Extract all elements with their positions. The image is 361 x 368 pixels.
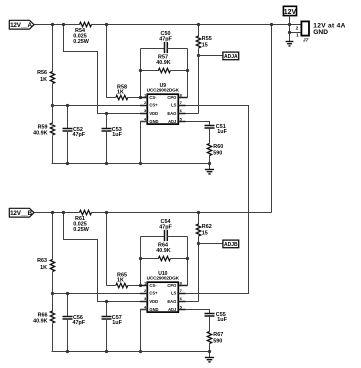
svg-text:J7: J7 xyxy=(303,38,309,44)
svg-text:R62: R62 xyxy=(202,224,212,230)
svg-text:1K: 1K xyxy=(117,89,124,95)
loop bottom left xyxy=(141,70,159,72)
wire C57 to rail xyxy=(106,319,108,352)
wire to CS- series resistor xyxy=(107,97,116,99)
wire cap to resistor xyxy=(209,317,211,332)
junction rail/C xyxy=(66,162,69,165)
junction rail/GND pin xyxy=(139,350,142,353)
svg-text:R55: R55 xyxy=(202,36,212,42)
capacitor C55 1uF (ADJ) xyxy=(205,312,228,323)
junction ADJ tap xyxy=(197,242,200,245)
svg-text:CS-: CS- xyxy=(149,95,157,100)
svg-text:47pF: 47pF xyxy=(159,36,172,42)
wire resistor to ground xyxy=(209,344,211,358)
net label ADJB xyxy=(223,240,239,248)
loop bottom right xyxy=(171,70,188,72)
wire to ADJA label xyxy=(199,55,223,57)
resistor R60 590 xyxy=(207,144,223,157)
wire R66 to local rail xyxy=(52,324,54,352)
resistor R61 0.025 0.25W (shunt) xyxy=(73,210,91,233)
svg-text:VDD: VDD xyxy=(149,111,158,116)
svg-text:15: 15 xyxy=(202,230,208,236)
svg-text:1uF: 1uF xyxy=(217,129,227,135)
wire CS+ node to R59 xyxy=(52,106,54,124)
junction rail/R55 xyxy=(197,23,200,26)
junction rail/C xyxy=(66,350,69,353)
wire CS+ to pin 2 xyxy=(53,293,148,295)
wire 12V_B rail to output node xyxy=(271,25,273,213)
junction rail/C xyxy=(105,350,108,353)
junction ADJ tap xyxy=(197,54,200,57)
wire to CS- series resistor xyxy=(107,285,116,287)
op-amp U10 UCC29002DGK load share controller xyxy=(140,271,188,312)
resistor R58 1K (CS- series) xyxy=(116,84,128,99)
svg-text:ADJA: ADJA xyxy=(224,54,238,60)
svg-text:CPO: CPO xyxy=(167,283,177,288)
resistor R55 15 xyxy=(196,36,211,48)
wire VDD feed to pin 3 xyxy=(64,25,148,114)
junction rail/CS- tap xyxy=(105,23,108,26)
ground (connector) xyxy=(286,42,294,46)
wire tap to R56 xyxy=(52,25,54,72)
wire C52 to rail xyxy=(67,131,69,164)
resistor R64 40.9K (compensation) xyxy=(141,243,188,261)
svg-text:0.25W: 0.25W xyxy=(73,39,89,45)
resistor R54 0.025 0.25W (shunt) xyxy=(73,22,91,45)
svg-text:47pF: 47pF xyxy=(73,132,86,138)
svg-text:1K: 1K xyxy=(40,265,47,271)
junction 12V node xyxy=(288,23,291,26)
svg-text:40.9K: 40.9K xyxy=(33,319,47,325)
svg-text:VDD: VDD xyxy=(149,299,158,304)
wire CS- resistor to pin 1 xyxy=(128,97,148,99)
svg-text:LS: LS xyxy=(171,291,177,296)
svg-text:590: 590 xyxy=(213,150,222,156)
wire 12V_B rail right of shunt xyxy=(92,212,272,214)
svg-text:12V__A: 12V__A xyxy=(10,22,32,29)
capacitor C56 47pF xyxy=(63,294,86,352)
wire VDD feed to pin 3 xyxy=(64,213,148,302)
wire to ADJB label xyxy=(199,243,223,245)
resistor R65 1K (CS- series) xyxy=(116,272,128,287)
wire LS share bus U9 pin7 to U10 pin7 xyxy=(186,106,249,294)
wire EAO pin 6 xyxy=(186,301,199,303)
junction rail/VDD feed xyxy=(62,211,65,214)
capacitor C54 47pF (compensation) xyxy=(141,219,188,241)
junction loop/CS- wire xyxy=(139,284,142,287)
wire 12V_A rail right of shunt xyxy=(92,24,302,26)
svg-text:1uF: 1uF xyxy=(112,132,122,138)
capacitor C53 1uF xyxy=(102,114,123,164)
svg-text:LS: LS xyxy=(171,103,177,108)
wire ADJ pin 5 down xyxy=(186,122,210,126)
wire R59 to local rail xyxy=(52,136,54,164)
loop top left xyxy=(141,236,165,238)
svg-text:1K: 1K xyxy=(40,77,47,83)
loop top left xyxy=(141,48,165,50)
svg-text:GND: GND xyxy=(149,307,158,312)
wire loop right vertical to pin 8 xyxy=(187,49,189,98)
net flag 12V__B xyxy=(9,208,34,217)
wire R62 to EAO xyxy=(198,237,200,302)
wire 12V symbol stem xyxy=(289,16,291,25)
svg-text:R59: R59 xyxy=(38,124,48,130)
junction CS+/C xyxy=(66,292,69,295)
wire loop right vertical to pin 8 xyxy=(187,237,189,286)
junction 12V_A/R56 xyxy=(51,23,54,26)
wire CS+ node to R66 xyxy=(52,294,54,312)
wire rail to R62 xyxy=(198,213,200,225)
wire CS+ to C52 xyxy=(67,106,69,129)
svg-text:GND: GND xyxy=(313,29,328,36)
wire rail to R55 xyxy=(198,25,200,37)
svg-text:UCC29002DGK: UCC29002DGK xyxy=(147,88,180,93)
svg-text:ADJB: ADJB xyxy=(224,242,238,248)
wire VDD to C53 xyxy=(106,114,108,129)
junction rail/GND pin xyxy=(139,162,142,165)
resistor R66 40.9K xyxy=(33,311,55,325)
wire C53 to rail xyxy=(106,131,108,164)
junction output node xyxy=(270,23,273,26)
junction GND branch xyxy=(288,31,291,34)
junction loop/CS- wire xyxy=(139,96,142,99)
op-amp U9 UCC29002DGK load share controller xyxy=(140,83,188,124)
svg-text:R66: R66 xyxy=(38,312,48,318)
svg-text:R60: R60 xyxy=(213,144,223,150)
svg-text:1uF: 1uF xyxy=(217,317,227,323)
svg-text:15: 15 xyxy=(202,42,208,48)
capacitor C57 1uF xyxy=(102,302,123,352)
svg-text:CPO: CPO xyxy=(167,95,177,100)
resistor R56 1K xyxy=(37,70,55,83)
wire tap to R63 xyxy=(52,213,54,260)
wire R63 to CS+ node xyxy=(52,272,54,294)
resistor R62 15 xyxy=(196,224,211,236)
svg-text:0.25W: 0.25W xyxy=(73,227,89,233)
svg-text:CS+: CS+ xyxy=(149,103,158,108)
resistor R63 1K xyxy=(37,258,55,271)
svg-text:12V__B: 12V__B xyxy=(10,210,32,217)
junction rail/ground xyxy=(208,162,211,165)
wire local ground rail xyxy=(52,163,210,165)
junction loop right xyxy=(186,69,189,72)
wire local ground rail xyxy=(52,351,210,353)
svg-text:ADJ: ADJ xyxy=(168,119,176,124)
wire GND pin 4 down xyxy=(141,122,148,164)
wire CS+ to pin 2 xyxy=(53,105,148,107)
wire CS+ to C56 xyxy=(67,294,69,317)
junction CS+ node xyxy=(51,104,54,107)
resistor R57 40.9K (compensation) xyxy=(141,55,188,73)
wire to connector ground xyxy=(289,33,291,42)
junction loop left xyxy=(139,69,142,72)
junction VDD/C xyxy=(105,112,108,115)
svg-text:GND: GND xyxy=(149,119,158,124)
svg-text:590: 590 xyxy=(213,338,222,344)
svg-text:1K: 1K xyxy=(117,277,124,283)
wire 12V_A rail left of shunt xyxy=(35,24,80,26)
wire ADJ pin 5 down xyxy=(186,310,210,314)
loop bottom left xyxy=(141,258,159,260)
svg-text:UCC29002DGK: UCC29002DGK xyxy=(147,276,180,281)
wire VDD to C57 xyxy=(106,302,108,317)
svg-text:R67: R67 xyxy=(213,332,223,338)
loop top right xyxy=(167,236,188,238)
wire tap to CS- xyxy=(106,213,108,286)
junction rail/CS- tap xyxy=(105,211,108,214)
wire cap to resistor xyxy=(209,129,211,144)
svg-text:CS+: CS+ xyxy=(149,291,158,296)
junction rail/C xyxy=(105,162,108,165)
net label ADJA xyxy=(223,52,239,60)
loop bottom right xyxy=(171,258,188,260)
capacitor C50 47pF (compensation) xyxy=(141,31,188,53)
svg-text:47pF: 47pF xyxy=(159,224,172,230)
wire CS- resistor to pin 1 xyxy=(128,285,148,287)
wire R56 to CS+ node xyxy=(52,84,54,106)
connector J7 xyxy=(296,21,309,43)
svg-text:1: 1 xyxy=(296,33,299,38)
svg-text:EAO: EAO xyxy=(167,299,177,304)
wire GND pin 4 down xyxy=(141,310,148,352)
ground (section U10) xyxy=(205,358,214,362)
junction loop left xyxy=(139,257,142,260)
svg-text:CS-: CS- xyxy=(149,283,157,288)
junction CS+/C xyxy=(66,104,69,107)
svg-text:12V: 12V xyxy=(284,9,297,16)
wire loop left vertical xyxy=(140,237,142,286)
wire resistor to ground xyxy=(209,156,211,170)
wire to J7 pin 1 xyxy=(290,25,302,33)
junction VDD/C xyxy=(105,300,108,303)
svg-text:40.9K: 40.9K xyxy=(156,248,170,254)
junction rail/R62 xyxy=(197,211,200,214)
svg-text:40.9K: 40.9K xyxy=(156,60,170,66)
net flag 12V__A xyxy=(9,20,34,29)
svg-text:2: 2 xyxy=(296,25,299,30)
resistor R67 590 xyxy=(207,332,223,345)
junction rail/VDD feed xyxy=(62,23,65,26)
capacitor C51 1uF (ADJ) xyxy=(205,124,228,135)
wire R55 to EAO xyxy=(198,49,200,114)
junction rail/ground xyxy=(208,350,211,353)
svg-text:40.9K: 40.9K xyxy=(33,131,47,137)
wire C56 to rail xyxy=(67,319,69,352)
svg-text:ADJ: ADJ xyxy=(168,307,176,312)
resistor R59 40.9K xyxy=(33,123,55,137)
wire EAO pin 6 xyxy=(186,113,199,115)
wire tap to CS- xyxy=(106,25,108,98)
svg-text:47pF: 47pF xyxy=(73,320,86,326)
svg-text:1uF: 1uF xyxy=(112,320,122,326)
ground (section U9) xyxy=(205,170,214,174)
svg-text:R63: R63 xyxy=(37,258,47,264)
svg-text:EAO: EAO xyxy=(167,111,177,116)
junction CS+ node xyxy=(51,292,54,295)
capacitor C52 47pF xyxy=(63,106,86,164)
wire 12V_B rail left of shunt xyxy=(35,212,80,214)
svg-text:R56: R56 xyxy=(37,70,47,76)
loop top right xyxy=(167,48,188,50)
wire loop left vertical xyxy=(140,49,142,98)
junction loop right xyxy=(186,257,189,260)
power symbol 12V xyxy=(283,6,296,16)
junction 12V_B/R63 xyxy=(51,211,54,214)
